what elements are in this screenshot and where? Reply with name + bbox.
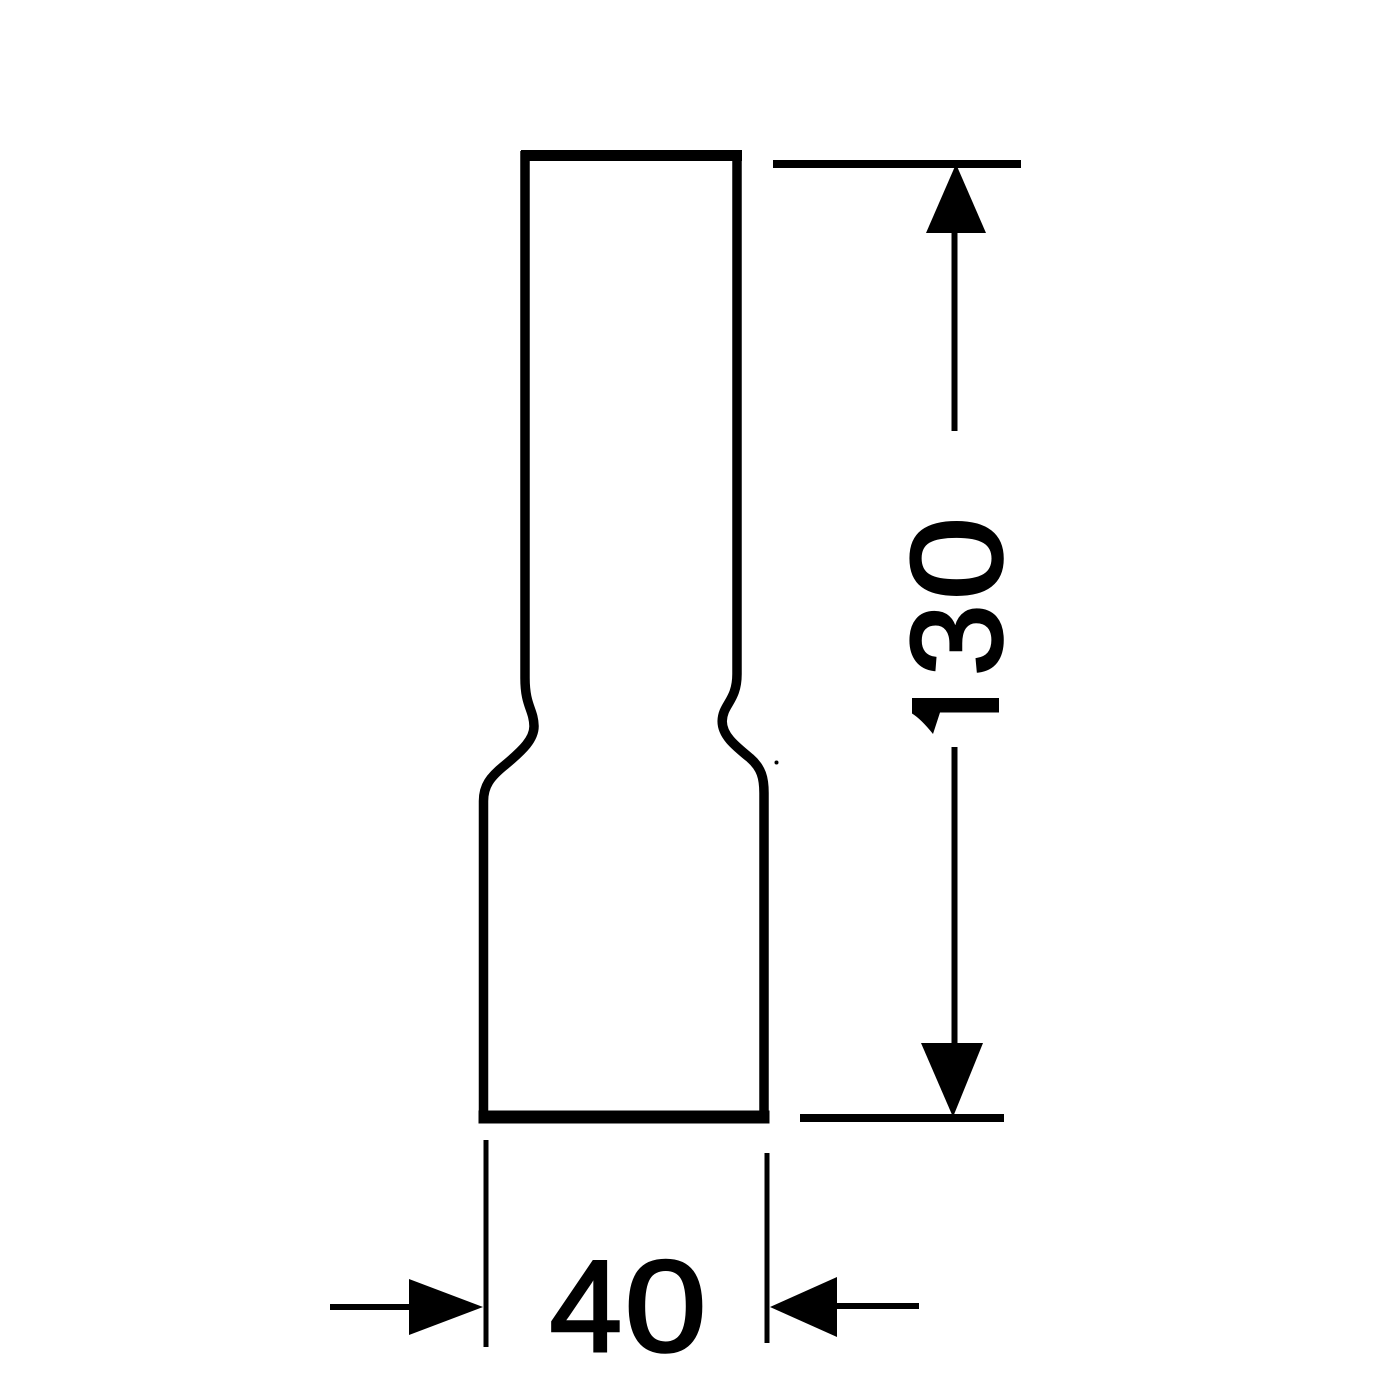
stray ink speck bbox=[775, 761, 779, 765]
dimension 40: left-pointing arrowhead bbox=[770, 1277, 837, 1337]
lamp glass chimney outline: top rim line bbox=[521, 150, 742, 161]
dimension 130: top extension line bbox=[773, 160, 1021, 168]
dimension 40: right-pointing arrowhead bbox=[409, 1279, 483, 1335]
svg-text:3: 3 bbox=[885, 604, 1029, 676]
dimension 130: lower shaft bbox=[952, 747, 958, 1046]
svg-text:0: 0 bbox=[625, 1234, 707, 1379]
lamp glass chimney outline: left profile bbox=[484, 151, 535, 1117]
dimension 130: upper shaft bbox=[952, 230, 958, 431]
dimension 40: right extension line bbox=[765, 1153, 770, 1343]
dimension 130: up arrowhead bbox=[926, 164, 986, 233]
dimension 130: bottom extension line bbox=[800, 1114, 1004, 1122]
dimension 40: left extension line bbox=[484, 1140, 489, 1347]
dimension 130: down arrowhead bbox=[921, 1043, 983, 1117]
dimension 130: value label "1" digit (drawn, rotated) bbox=[912, 698, 999, 734]
svg-text:4: 4 bbox=[550, 1233, 622, 1379]
dimension 40: right shaft bbox=[835, 1303, 919, 1309]
svg-text:0: 0 bbox=[885, 517, 1029, 600]
lamp glass chimney outline: bottom base line bbox=[479, 1111, 770, 1124]
lamp glass chimney outline: right profile bbox=[722, 151, 764, 1117]
dimension 40: left shaft bbox=[330, 1304, 412, 1310]
